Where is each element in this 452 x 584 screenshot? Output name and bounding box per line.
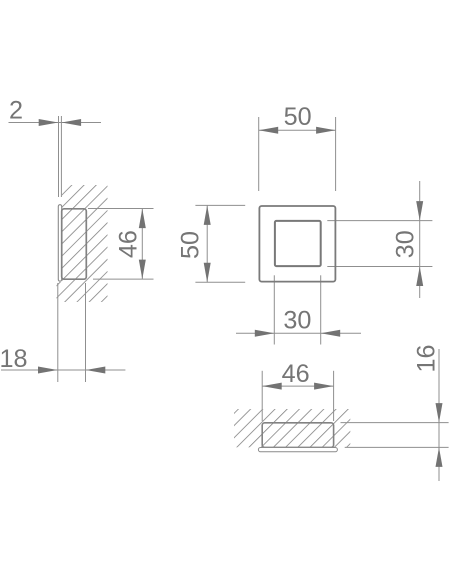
svg-text:30: 30: [391, 230, 419, 258]
svg-text:46: 46: [115, 230, 143, 258]
svg-text:30: 30: [283, 307, 311, 335]
svg-text:46: 46: [282, 360, 310, 388]
svg-text:50: 50: [284, 103, 312, 131]
svg-text:16: 16: [413, 344, 441, 372]
svg-text:18: 18: [0, 345, 28, 373]
svg-text:2: 2: [9, 97, 23, 125]
svg-text:50: 50: [177, 231, 205, 259]
